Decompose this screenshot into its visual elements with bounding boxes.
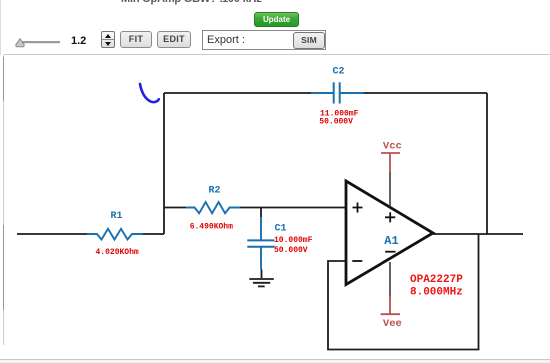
svg-text:C1: C1 <box>275 224 287 235</box>
svg-text:R1: R1 <box>111 211 123 222</box>
svg-text:OPA2227P: OPA2227P <box>410 274 463 286</box>
svg-text:4.020KOhm: 4.020KOhm <box>96 248 139 257</box>
svg-text:Vcc: Vcc <box>383 141 402 153</box>
svg-text:10.000mF: 10.000mF <box>274 236 313 245</box>
svg-text:R2: R2 <box>209 186 221 197</box>
svg-text:6.490KOhm: 6.490KOhm <box>190 223 233 232</box>
svg-text:A1: A1 <box>384 234 398 248</box>
svg-text:8.000MHz: 8.000MHz <box>410 287 463 299</box>
svg-text:50.000V: 50.000V <box>274 246 308 255</box>
svg-text:C2: C2 <box>333 67 345 78</box>
svg-text:Vee: Vee <box>383 318 402 330</box>
svg-text:50.000V: 50.000V <box>319 118 353 127</box>
